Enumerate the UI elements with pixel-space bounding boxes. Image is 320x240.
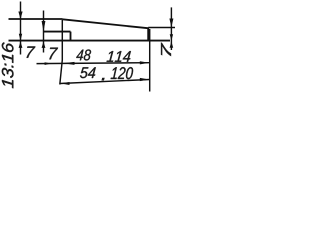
- label 7 second: [49, 48, 58, 60]
- label 48: [76, 49, 91, 60]
- label 54: [80, 67, 96, 78]
- wire notch step: [70, 32, 72, 41]
- arrow dim2 left at V3: [60, 82, 69, 85]
- label 114: [107, 51, 131, 62]
- arrow V1 down at T1: [18, 12, 22, 20]
- wire right end edge: [147, 28, 149, 42]
- wire notch line M: [44, 31, 71, 33]
- wire dimension V4: [170, 7, 172, 50]
- wire dimension line dim1: [37, 62, 150, 65]
- wire sloped top edge: [63, 19, 149, 28]
- wire bottom edge H2: [9, 40, 171, 42]
- wire top edge T1: [9, 18, 63, 20]
- arrow V4 down at top ext: [169, 19, 173, 28]
- wire extension right lower: [149, 29, 151, 92]
- label 120: [111, 67, 134, 79]
- arrow dim2 right: [140, 78, 150, 81]
- arrow V2 down at M: [42, 21, 46, 32]
- arrow V1 down at H2: [19, 34, 22, 41]
- arrow V2 up below H2: [42, 42, 46, 48]
- wire dimension V1: [20, 2, 22, 55]
- wire top extension right: [148, 27, 175, 29]
- arrow V4 up below H2: [170, 42, 174, 48]
- label dot separator: [102, 78, 105, 80]
- label 7 right rotated: [161, 43, 171, 57]
- wire dimension line dim2: [60, 80, 149, 84]
- label 13:16: [2, 42, 14, 88]
- arrow V1 up below H2: [19, 42, 23, 48]
- arrow dim1 left at V3: [63, 62, 75, 65]
- wire dimension V2: [43, 11, 45, 53]
- arrow dim1 left blob: [45, 62, 52, 65]
- arrow dim1 right: [140, 61, 150, 64]
- arrow V4 down at H2: [170, 34, 173, 40]
- wire extension V3: [60, 20, 63, 85]
- label 7 first: [26, 46, 35, 57]
